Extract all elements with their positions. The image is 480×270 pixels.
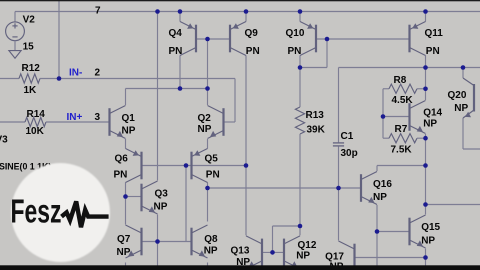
svg-text:R13: R13	[306, 110, 325, 121]
svg-text:Q10: Q10	[286, 28, 305, 39]
svg-text:Q20: Q20	[448, 90, 467, 101]
svg-text:Q16: Q16	[373, 179, 392, 190]
svg-text:NP: NP	[423, 119, 437, 130]
svg-text:1K: 1K	[24, 85, 38, 96]
svg-text:NP: NP	[296, 251, 310, 262]
svg-text:Q15: Q15	[421, 222, 440, 233]
svg-text:NP: NP	[421, 236, 435, 247]
svg-text:V3: V3	[0, 135, 8, 146]
svg-text:PN: PN	[288, 46, 302, 57]
svg-text:R14: R14	[27, 109, 46, 120]
svg-text:NP: NP	[204, 245, 218, 256]
svg-text:15: 15	[23, 41, 35, 52]
svg-text:C1: C1	[341, 131, 354, 142]
svg-text:Q8: Q8	[204, 234, 218, 245]
svg-text:PN: PN	[206, 170, 220, 181]
svg-text:3: 3	[95, 112, 101, 123]
svg-text:PN: PN	[114, 170, 128, 181]
svg-text:NP: NP	[117, 247, 131, 258]
svg-text:V2: V2	[23, 15, 36, 26]
svg-text:Q14: Q14	[423, 108, 442, 119]
svg-text:Q11: Q11	[425, 28, 444, 39]
svg-text:Q6: Q6	[115, 154, 129, 165]
svg-text:Q5: Q5	[205, 154, 219, 165]
svg-text:R7: R7	[395, 124, 408, 135]
svg-text:PN: PN	[246, 46, 260, 57]
svg-text:IN-: IN-	[69, 68, 82, 79]
svg-text:NP: NP	[454, 103, 468, 114]
svg-text:NP: NP	[373, 192, 387, 203]
svg-text:Q1: Q1	[122, 113, 136, 124]
svg-text:R8: R8	[394, 75, 407, 86]
svg-text:Q12: Q12	[298, 240, 317, 251]
svg-text:Q7: Q7	[117, 234, 131, 245]
svg-text:Q2: Q2	[198, 113, 212, 124]
svg-text:NP: NP	[122, 126, 136, 137]
svg-text:39K: 39K	[307, 125, 326, 136]
svg-text:7: 7	[95, 6, 101, 17]
svg-text:4.5K: 4.5K	[392, 95, 414, 106]
svg-text:NP: NP	[198, 124, 212, 135]
svg-text:R12: R12	[22, 63, 41, 74]
svg-text:Q3: Q3	[155, 189, 169, 200]
svg-text:PN: PN	[169, 46, 183, 57]
svg-text:Q4: Q4	[169, 28, 183, 39]
svg-text:Fesz: Fesz	[11, 194, 62, 231]
svg-text:Q13: Q13	[231, 245, 250, 256]
svg-text:IN+: IN+	[67, 112, 83, 123]
svg-text:30p: 30p	[341, 148, 358, 159]
svg-text:7.5K: 7.5K	[391, 145, 413, 156]
svg-text:2: 2	[95, 68, 101, 79]
svg-text:PN: PN	[426, 46, 440, 57]
svg-text:NP: NP	[154, 202, 168, 213]
svg-text:Q9: Q9	[245, 28, 259, 39]
svg-text:10K: 10K	[26, 126, 45, 137]
